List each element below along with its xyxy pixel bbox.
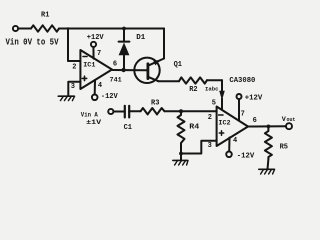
svg-text:Iabc: Iabc [205, 85, 219, 92]
IC1 pin3 wire [68, 82, 80, 96]
IC1 minus sign [83, 56, 87, 58]
svg-text:C1: C1 [124, 124, 132, 132]
node R5 junction [267, 125, 271, 129]
svg-text:3: 3 [71, 83, 75, 91]
svg-text:CA3080: CA3080 [229, 77, 255, 85]
diode D1 [123, 55, 125, 70]
svg-text:R4: R4 [189, 124, 199, 132]
node top rail junction [67, 27, 70, 30]
wire IC2 output [248, 125, 286, 127]
svg-text:+12V: +12V [245, 95, 263, 103]
op-amp IC2 triangle [217, 107, 248, 147]
IC1 pin7 wire [92, 47, 94, 58]
capacitor C1 [124, 106, 126, 118]
IC2 minus sign [219, 114, 223, 116]
node pin3/R4 junction [179, 152, 183, 156]
wire corner down to IC2 pin5 with arrow [221, 80, 223, 93]
svg-text:R1: R1 [41, 12, 49, 20]
svg-text:2: 2 [72, 64, 76, 72]
svg-text:D1: D1 [136, 34, 145, 42]
op-amp IC1 triangle [80, 50, 112, 89]
svg-text:6: 6 [253, 117, 257, 125]
ground R5 [259, 168, 274, 170]
Q1 emitter lead [149, 77, 159, 81]
resistor R5 [265, 126, 272, 159]
wire top rail corner down to Q1 [163, 29, 165, 59]
ground R4 [173, 159, 188, 161]
Q1 base bar [146, 64, 149, 79]
svg-text:out: out [287, 117, 296, 123]
svg-text:4: 4 [98, 82, 102, 90]
ground IC1 pin3 [58, 95, 74, 97]
wire C1 to R3 [114, 111, 125, 113]
wire C1 to R3 zigzag [129, 110, 140, 112]
svg-text:-12V: -12V [101, 93, 119, 101]
svg-text:4: 4 [233, 137, 237, 145]
resistor R3 [141, 108, 165, 114]
resistor R2 [179, 77, 207, 83]
IC1 -12V terminal [92, 95, 98, 101]
svg-text:IC2: IC2 [218, 119, 230, 127]
wire R2 to corner [207, 79, 222, 81]
output terminal Vout [286, 123, 292, 129]
IC2 pin4 wire [228, 138, 230, 152]
wire Q1 to R2 [158, 80, 179, 82]
IC2 pin7 wire [238, 99, 240, 120]
input terminal Vin 0V to 5V [13, 26, 18, 31]
svg-text:7: 7 [241, 110, 245, 118]
svg-text:3: 3 [208, 142, 212, 150]
svg-text:Q1: Q1 [174, 61, 182, 69]
svg-text:7: 7 [97, 50, 101, 58]
wire R4 to ground [180, 148, 182, 161]
IC2 -12V terminal [226, 152, 232, 158]
IC1 +12V terminal [91, 42, 96, 47]
svg-text:R3: R3 [151, 100, 159, 108]
IC1 pin4 wire [94, 80, 96, 94]
input terminal Vin A [108, 109, 113, 114]
svg-text:5: 5 [212, 99, 216, 107]
svg-text:+12V: +12V [87, 34, 105, 42]
Q1 upper lead [149, 59, 164, 66]
svg-text:Vin A: Vin A [81, 112, 98, 119]
svg-text:IC1: IC1 [83, 61, 95, 69]
svg-text:Vin 0V to 5V: Vin 0V to 5V [6, 37, 59, 48]
Q1 lead arrowhead [153, 60, 160, 65]
resistor R1 [31, 25, 59, 31]
svg-text:±1V: ±1V [86, 119, 101, 126]
IC1 plus sign [82, 77, 86, 79]
transistor Q1 circle [134, 58, 159, 83]
svg-text:-12V: -12V [237, 153, 255, 161]
wire R3 to IC2 pin2 [164, 110, 216, 112]
svg-text:2: 2 [208, 114, 212, 122]
svg-text:741: 741 [110, 77, 122, 85]
node R4 top junction [179, 109, 183, 113]
wire IC2 pin3 step [181, 141, 217, 154]
wire IC1 output to Q1 base [113, 69, 147, 71]
svg-text:R2: R2 [189, 86, 197, 94]
wire R1 to corner (top rail) [59, 28, 164, 30]
node D1 cathode junction [122, 27, 126, 31]
wire junction drop to IC1 pin2 [68, 29, 80, 62]
node D1 anode junction [121, 68, 125, 72]
wire R5 to ground [267, 159, 270, 169]
IC2 +12V terminal [237, 94, 242, 99]
svg-text:6: 6 [113, 60, 117, 68]
wire terminal to R1 [18, 28, 31, 30]
svg-text:R5: R5 [280, 143, 288, 151]
IC2 plus sign [219, 132, 223, 134]
resistor R4 [178, 111, 185, 148]
